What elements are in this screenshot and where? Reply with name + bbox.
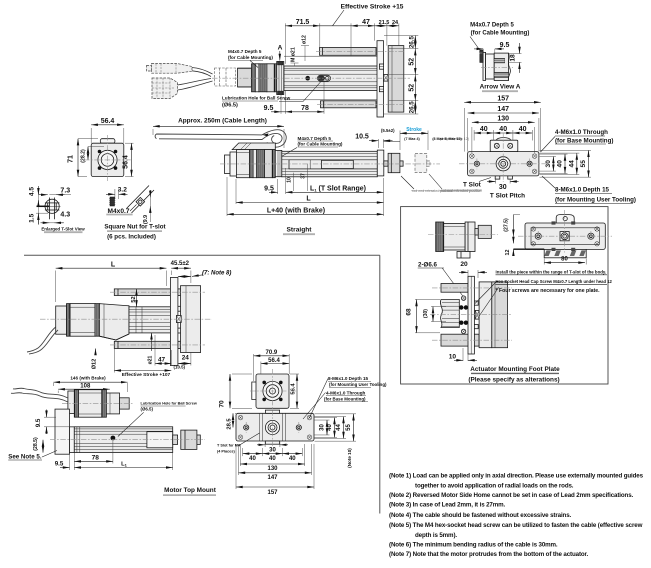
svg-text:68: 68 — [406, 308, 413, 316]
svg-text:40: 40 — [480, 126, 488, 133]
svg-text:40: 40 — [557, 160, 564, 168]
svg-text:4.3: 4.3 — [60, 212, 70, 219]
svg-text:* Four screws are necessary fo: * Four screws are necessary for one plat… — [496, 288, 601, 294]
svg-text:(5.5±2): (5.5±2) — [381, 128, 395, 133]
svg-text:44: 44 — [336, 424, 342, 431]
svg-text:30: 30 — [320, 424, 326, 431]
svg-text:21.5: 21.5 — [379, 20, 390, 26]
svg-text:80: 80 — [561, 257, 568, 263]
svg-text:30: 30 — [269, 447, 276, 453]
svg-text:Square Nut for T-slot: Square Nut for T-slot — [104, 224, 165, 231]
svg-text:52: 52 — [409, 84, 416, 92]
svg-text:4-M6x1.0 Through: 4-M6x1.0 Through — [326, 390, 366, 395]
svg-text:44: 44 — [568, 160, 575, 168]
svg-text:40: 40 — [327, 424, 333, 431]
svg-text:55: 55 — [346, 424, 352, 431]
svg-text:20: 20 — [460, 261, 468, 268]
svg-text:71.5: 71.5 — [296, 19, 310, 26]
svg-text:56.4: 56.4 — [291, 383, 297, 395]
svg-text:Effective Stroke +107: Effective Stroke +107 — [122, 372, 171, 378]
svg-text:12: 12 — [505, 250, 511, 256]
svg-text:24: 24 — [182, 355, 190, 362]
svg-text:M4x0.7 Depth 5: M4x0.7 Depth 5 — [298, 136, 332, 141]
svg-text:M4x0.7 Depth 5: M4x0.7 Depth 5 — [228, 49, 262, 54]
svg-text:T Slot: T Slot — [463, 181, 482, 188]
svg-text:30: 30 — [545, 160, 552, 168]
svg-text:147: 147 — [497, 106, 509, 113]
svg-text:52: 52 — [131, 296, 137, 302]
svg-text:70: 70 — [219, 400, 226, 408]
svg-text:Lubrication Hole for Ball Scre: Lubrication Hole for Ball Screw — [141, 402, 197, 406]
svg-text:See Note 5.: See Note 5. — [8, 454, 42, 461]
svg-text:M ø21: M ø21 — [291, 47, 297, 62]
svg-text:Straight: Straight — [287, 227, 313, 234]
svg-text:45.5±2: 45.5±2 — [171, 261, 190, 267]
svg-text:Lubrication Hole for Ball Scre: Lubrication Hole for Ball Screw — [222, 96, 291, 101]
svg-text:40: 40 — [289, 456, 296, 462]
svg-text:56.4: 56.4 — [123, 155, 130, 169]
svg-text:8-M6x1.0 Depth 15: 8-M6x1.0 Depth 15 — [555, 187, 610, 194]
svg-text:9.5: 9.5 — [55, 461, 64, 468]
svg-text:40: 40 — [499, 126, 507, 133]
svg-text:7.3: 7.3 — [60, 187, 70, 194]
svg-text:M4x0.7 Depth 5: M4x0.7 Depth 5 — [470, 23, 514, 29]
svg-text:47: 47 — [362, 19, 370, 26]
svg-text:Ø12: Ø12 — [92, 359, 98, 370]
svg-text:ø21: ø21 — [148, 355, 154, 364]
svg-text:4.5: 4.5 — [28, 187, 35, 196]
svg-text:78: 78 — [301, 105, 309, 112]
svg-text:depth is 5mm).: depth is 5mm). — [415, 532, 457, 539]
svg-text:157: 157 — [497, 96, 509, 103]
svg-text:10: 10 — [287, 177, 293, 183]
svg-text:10: 10 — [449, 353, 457, 360]
svg-text:1.5: 1.5 — [28, 213, 35, 222]
svg-text:(Note 2) Reversed Motor Side H: (Note 2) Reversed Motor Side Home cannot… — [389, 492, 634, 499]
svg-text:9.5: 9.5 — [500, 42, 510, 49]
svg-text:10.5: 10.5 — [355, 133, 369, 140]
svg-text:8-M6x1.0 Depth 15: 8-M6x1.0 Depth 15 — [328, 376, 369, 381]
svg-text:(30): (30) — [423, 309, 429, 318]
svg-text:40: 40 — [249, 456, 256, 462]
svg-text:40: 40 — [269, 456, 276, 462]
svg-text:(for Mounting User Tooling): (for Mounting User Tooling) — [555, 197, 636, 204]
svg-text:L1: L1 — [121, 461, 128, 467]
svg-text:(10.5): (10.5) — [174, 364, 186, 369]
svg-text:37: 37 — [300, 173, 306, 179]
svg-text:(28.2): (28.2) — [80, 149, 86, 163]
svg-text:(Note 3) In case of Lead 2mm,: (Note 3) In case of Lead 2mm, it is 27mm… — [389, 502, 506, 509]
svg-text:(for Cable Mounting): (for Cable Mounting) — [228, 55, 273, 60]
svg-text:Hex Socket Head Cap Screw M4x0: Hex Socket Head Cap Screw M4x0.7 Length … — [496, 279, 613, 284]
svg-text:Motor Top Mount: Motor Top Mount — [164, 487, 217, 494]
svg-text:rod end extended position: rod end extended position — [440, 189, 481, 193]
svg-text:Arrow View A: Arrow View A — [480, 84, 521, 91]
svg-text:Effective Stroke +15: Effective Stroke +15 — [341, 4, 404, 11]
svg-text:3.2: 3.2 — [118, 187, 127, 194]
svg-text:56.4: 56.4 — [268, 358, 280, 364]
svg-text:9.5: 9.5 — [264, 185, 274, 192]
svg-text:T Slot for M4: T Slot for M4 — [217, 443, 241, 447]
svg-text:130: 130 — [497, 116, 509, 123]
svg-text:(for Base Mounting): (for Base Mounting) — [555, 138, 613, 145]
svg-text:together to avoid application: together to avoid application of radial … — [415, 482, 574, 489]
svg-text:146 (with Brake): 146 (with Brake) — [70, 376, 106, 381]
svg-text:(Ø6.5): (Ø6.5) — [222, 103, 238, 109]
svg-text:130: 130 — [267, 466, 278, 472]
svg-text:28.5: 28.5 — [227, 418, 233, 430]
svg-text:157: 157 — [267, 490, 278, 496]
svg-text:L+40 (with Brake): L+40 (with Brake) — [267, 207, 325, 214]
svg-text:(7: Note 8): (7: Note 8) — [202, 271, 231, 277]
svg-text:T Slot Pitch: T Slot Pitch — [490, 193, 525, 200]
svg-text:(Note 4) The cable should be f: (Note 4) The cable should be fastened wi… — [389, 512, 572, 519]
svg-text:9.5: 9.5 — [35, 418, 42, 427]
svg-text:L: L — [306, 195, 311, 202]
svg-text:26.5: 26.5 — [409, 36, 416, 49]
svg-text:56.4: 56.4 — [101, 118, 115, 125]
svg-text:Stroke: Stroke — [406, 127, 422, 133]
svg-text:55: 55 — [580, 160, 587, 168]
svg-text:(6 pcs. Included): (6 pcs. Included) — [107, 234, 156, 241]
svg-text:L: L — [111, 261, 116, 268]
svg-text:52: 52 — [409, 58, 416, 66]
svg-text:(Please specify as alterations: (Please specify as alterations) — [468, 376, 559, 383]
svg-text:30: 30 — [499, 184, 507, 191]
svg-text:(for Base Mounting): (for Base Mounting) — [324, 396, 366, 401]
svg-text:(for Mounting User Tooling): (for Mounting User Tooling) — [329, 382, 387, 387]
svg-text:Install the piece within the r: Install the piece within the range of T-… — [496, 269, 607, 274]
svg-text:ø12: ø12 — [302, 35, 308, 44]
svg-text:147: 147 — [267, 475, 278, 481]
svg-text:26.5: 26.5 — [409, 101, 416, 114]
svg-text:71: 71 — [68, 155, 75, 163]
svg-text:L1 (T Slot Range): L1 (T Slot Range) — [310, 185, 366, 192]
svg-text:(Note 6) The minimum bending r: (Note 6) The minimum bending radius of t… — [389, 541, 558, 548]
svg-text:(for Cable Mounting): (for Cable Mounting) — [298, 142, 343, 147]
svg-text:9.5: 9.5 — [264, 105, 274, 112]
svg-text:Actuator Mounting Foot Plate: Actuator Mounting Foot Plate — [470, 366, 560, 373]
svg-text:(Note 10): (Note 10) — [347, 448, 352, 468]
svg-text:(7 Max 4): (7 Max 4) — [404, 137, 420, 141]
svg-text:78: 78 — [92, 454, 100, 461]
svg-text:(27.5): (27.5) — [504, 218, 510, 232]
svg-text:2-Ø6.6: 2-Ø6.6 — [418, 261, 437, 268]
svg-text:(Note 5) The M4 hex-socket hea: (Note 5) The M4 hex-socket head screw ca… — [389, 522, 643, 529]
svg-text:18: 18 — [510, 54, 517, 62]
svg-text:47: 47 — [158, 357, 166, 364]
svg-text:108: 108 — [80, 383, 91, 389]
svg-text:(Note 1) Load can be applied o: (Note 1) Load can be applied only in axi… — [389, 473, 644, 480]
svg-text:70.9: 70.9 — [266, 350, 278, 356]
svg-text:(8 Max 8, Max 12): (8 Max 8, Max 12) — [432, 137, 462, 141]
svg-text:24: 24 — [392, 20, 399, 26]
svg-text:(9.9: (9.9 — [143, 215, 149, 224]
svg-text:Approx. 250m (Cable Length): Approx. 250m (Cable Length) — [178, 118, 267, 125]
svg-text:(4 Places): (4 Places) — [217, 449, 235, 453]
svg-text:4-M6x1.0 Through: 4-M6x1.0 Through — [555, 129, 608, 136]
svg-text:(Ø6.5): (Ø6.5) — [141, 407, 154, 412]
svg-text:A: A — [278, 45, 283, 52]
svg-text:(for Cable Mounting): (for Cable Mounting) — [471, 31, 530, 37]
svg-text:Enlarged T-Slot View: Enlarged T-Slot View — [41, 226, 85, 231]
svg-text:(28.5): (28.5) — [33, 437, 39, 451]
svg-text:(Note 7) Note that the motor p: (Note 7) Note that the motor protrudes f… — [389, 551, 589, 558]
svg-text:40: 40 — [519, 126, 527, 133]
